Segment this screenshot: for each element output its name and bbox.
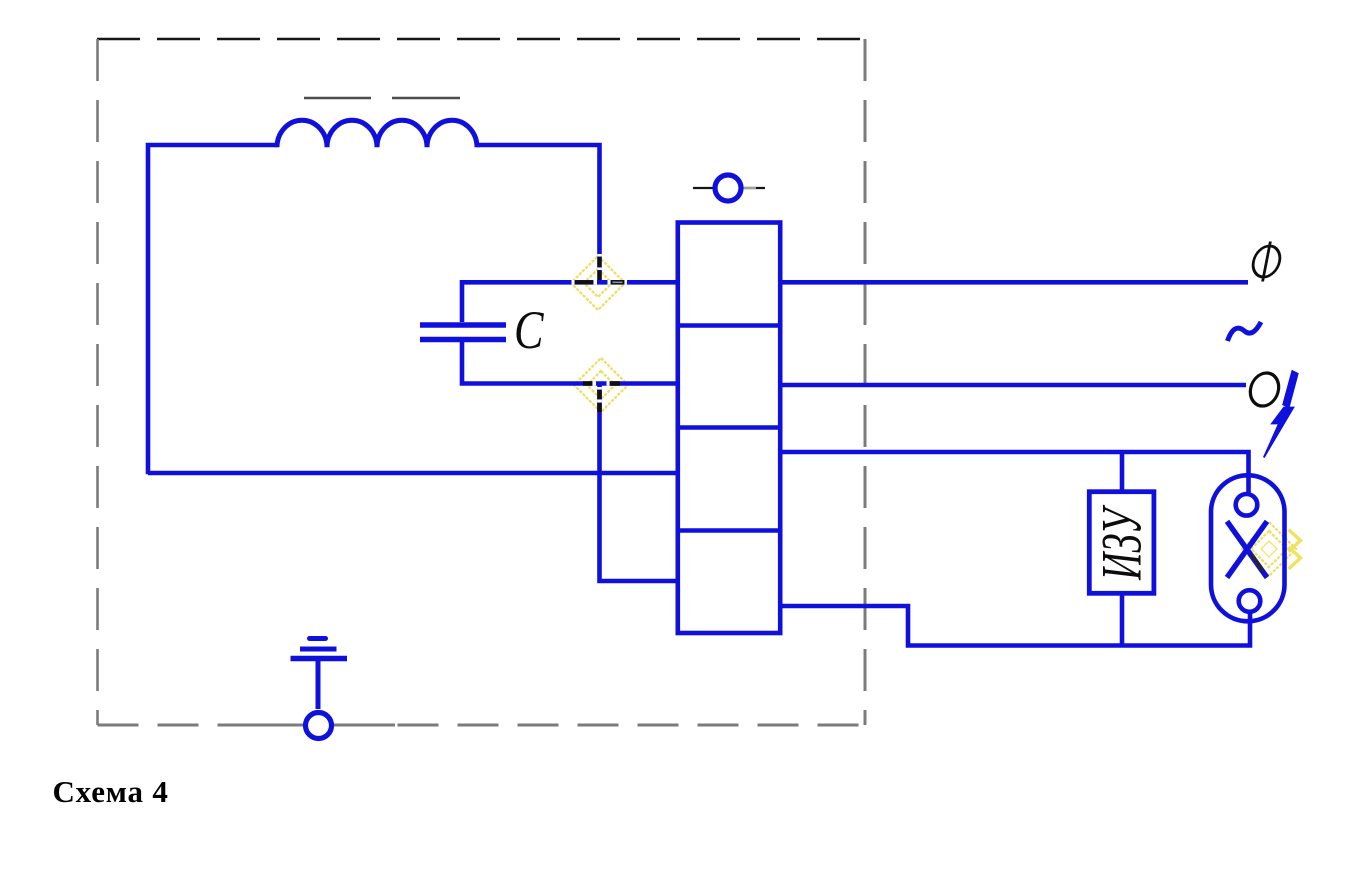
wire lamp bottom return	[780, 606, 1250, 646]
enclosure dashed border top	[97, 38, 865, 41]
selection ticks junction B	[583, 384, 620, 413]
wire capacitor top to terminal cell 1	[462, 282, 678, 322]
label phase terminal	[1250, 242, 1284, 282]
wire bottom loop to terminal cell 3	[148, 471, 678, 476]
lamp bottom electrode	[1239, 590, 1261, 612]
igniter box U1	[1089, 492, 1154, 594]
capacitor C plates	[420, 325, 506, 340]
selection tick lamp cross	[1252, 555, 1264, 571]
ground symbol	[291, 639, 348, 739]
wire junction B down to terminal cell 4	[600, 385, 679, 581]
label neutral terminal	[1248, 373, 1280, 406]
enclosure dashed border bottom	[98, 724, 866, 727]
terminal block top pin line	[693, 187, 765, 189]
wire igniter top lead	[1120, 452, 1125, 494]
wire left loop: left vertical and top segment	[148, 145, 277, 474]
lamp top electrode	[1236, 494, 1258, 516]
wire inductor to drop	[477, 145, 600, 282]
enclosure dashed border left	[96, 39, 99, 725]
enclosure dashed border right	[864, 39, 867, 725]
svg-text:C: C	[514, 300, 544, 360]
terminal block top circle	[715, 175, 741, 201]
inductor L	[277, 120, 477, 147]
label ac tilde	[1228, 322, 1262, 341]
svg-text:ИЗУ: ИЗУ	[1091, 504, 1153, 580]
wire phase output	[780, 280, 1248, 285]
node marker diamond at lamp	[1242, 522, 1301, 576]
lightning strike arrow	[1264, 371, 1298, 458]
inductor core dashed lines	[304, 97, 460, 100]
node marker diamond at junction A	[571, 256, 625, 310]
lamp cross	[1227, 521, 1267, 577]
lamp EL1 stadium body	[1211, 475, 1285, 621]
selection ticks junction A	[572, 254, 628, 282]
svg-text:Схема 4: Схема 4	[53, 774, 169, 809]
node marker diamond at junction B	[574, 358, 628, 412]
wire igniter bottom lead	[1120, 592, 1125, 646]
wire lamp top feed	[780, 452, 1249, 494]
terminal block X1	[678, 223, 780, 634]
wire neutral output	[780, 383, 1246, 388]
wire capacitor bottom to terminal cell 2	[462, 342, 678, 384]
